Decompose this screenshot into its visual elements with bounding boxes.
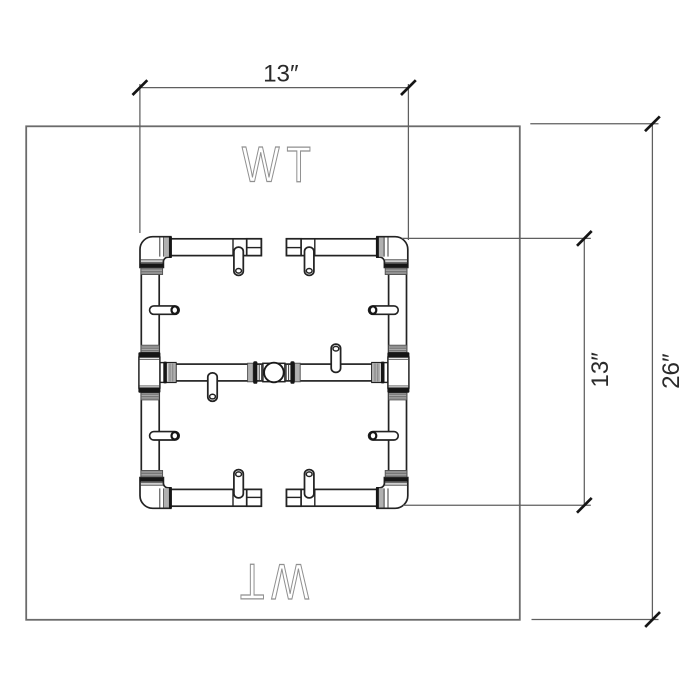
svg-text:13″: 13″ xyxy=(263,61,299,88)
tee right xyxy=(372,345,410,400)
open pipe end fitting top-left xyxy=(233,239,261,256)
dimension 13in top: dimension line xyxy=(140,87,409,89)
dimension 13in right: dimension line xyxy=(583,238,585,505)
horizontal nipple on left pipe upper xyxy=(150,306,180,314)
svg-text:WT: WT xyxy=(233,554,309,611)
dimension 26in: extension line bottom xyxy=(532,619,659,621)
dimension 13in top: extension line right xyxy=(407,84,409,240)
center cross fitting xyxy=(248,361,301,384)
open pipe end fitting bottom-right xyxy=(287,489,315,506)
bottom-right horizontal pipe xyxy=(287,489,380,506)
svg-text:26″: 26″ xyxy=(658,353,685,389)
dimension 13in right: extension line bottom xyxy=(403,504,591,506)
capped nipple hanging from center pipe xyxy=(208,373,217,401)
capped nipple hanging from top-left pipe xyxy=(234,247,243,275)
capped nipple standing on bottom-right pipe xyxy=(305,470,314,498)
capped nipple hanging from top-right pipe xyxy=(305,247,314,275)
bottom-left horizontal pipe xyxy=(168,489,261,506)
dimension 26in: tick bottom xyxy=(645,612,660,627)
watermark WT top xyxy=(242,136,318,193)
dimension 13in top: tick left xyxy=(133,80,148,95)
horizontal nipple on right pipe upper xyxy=(369,306,399,314)
watermark WT bottom (rotated 180) xyxy=(233,554,309,611)
outer square (26 inch fire pit pan outline) xyxy=(26,126,520,620)
open pipe end fitting bottom-left xyxy=(233,489,261,506)
horizontal nipple on right pipe lower xyxy=(369,432,399,440)
open pipe end fitting top-right xyxy=(287,239,315,256)
dimension 26in: dimension line xyxy=(651,124,653,620)
elbow top-right xyxy=(376,236,408,274)
elbow bottom-left xyxy=(140,471,172,509)
elbow bottom-right xyxy=(376,471,408,509)
right vertical pipe xyxy=(389,258,407,487)
elbow top-left xyxy=(140,236,172,274)
dimension 13in top: tick right xyxy=(401,80,416,95)
svg-text:13″: 13″ xyxy=(587,352,614,388)
dimension 13in right: tick bottom xyxy=(577,498,592,513)
tee left xyxy=(138,345,176,400)
dimension 13in top: extension line left xyxy=(139,84,141,233)
left vertical pipe xyxy=(141,258,159,487)
center cross pipe xyxy=(172,364,376,381)
capped nipple standing on bottom-left pipe xyxy=(234,470,243,498)
top-left horizontal pipe xyxy=(168,239,261,256)
svg-text:WT: WT xyxy=(242,136,318,193)
dimension 26in: tick top xyxy=(645,116,660,131)
dimension 13in right: tick top xyxy=(577,231,592,246)
top-right horizontal pipe xyxy=(287,239,380,256)
dimension 26in: extension line top xyxy=(530,123,658,125)
horizontal nipple on left pipe lower xyxy=(150,432,180,440)
capped nipple standing on center pipe xyxy=(331,344,340,372)
dimension 13in right: extension line top xyxy=(402,237,591,239)
